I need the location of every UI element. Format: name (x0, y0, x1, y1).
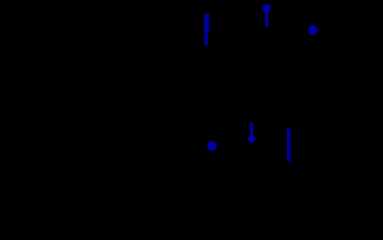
circuit schematic on black background; only highlighted (navy) elements visible (0, 0, 383, 187)
wire W1 (selected vertical wire, stepped width) (204, 14, 209, 46)
node A (junction dot) (308, 25, 318, 35)
terminal T1 (pin, ball on top) (262, 4, 271, 27)
terminal T2 (pin, ball on bottom with side tabs) (248, 122, 256, 142)
wire W2 (selected vertical wire segment) (287, 129, 291, 162)
node B (junction dot) (207, 141, 217, 151)
